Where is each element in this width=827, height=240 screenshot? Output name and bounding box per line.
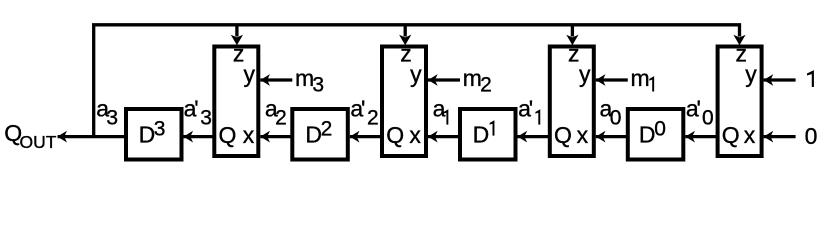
svg-text:x: x	[409, 122, 421, 148]
arrowhead into x of cell 2	[428, 131, 438, 143]
wire: m2 input into y of cell 2	[428, 78, 460, 81]
svg-text:2: 2	[480, 74, 492, 97]
arrowhead into y of cell 3	[596, 74, 606, 86]
wire: cell2 Q output to D2 input (node a'2)	[350, 135, 382, 138]
svg-text:D: D	[473, 121, 490, 147]
svg-text:Q: Q	[722, 122, 740, 148]
arrowhead into y of cell 2	[428, 74, 438, 86]
cell 1 box (z,y,Q,x multiplier cell)	[214, 47, 258, 157]
arrowhead to Q_OUT	[57, 131, 67, 143]
wire: z-input drop for cell 3	[571, 25, 574, 37]
wire: cell1 Q output to D3 input (node a'3)	[183, 135, 214, 138]
svg-text:3: 3	[154, 118, 166, 141]
arrowhead into x of cell 3	[596, 131, 606, 143]
cell 3 box (z,y,Q,x multiplier cell)	[550, 47, 594, 157]
wire: constant 1 into y of cell 4	[764, 78, 796, 81]
svg-text:': '	[529, 96, 533, 122]
input label 1	[807, 70, 814, 87]
svg-text:a: a	[433, 96, 446, 122]
svg-text:x: x	[577, 122, 589, 148]
arrowhead into y of cell 4	[764, 74, 774, 86]
wire: m3 input into y of cell 1	[260, 78, 292, 81]
cell 4 box (z,y,Q,x multiplier cell)	[718, 47, 762, 157]
svg-text:x: x	[744, 122, 756, 148]
arrowhead into D0	[685, 131, 695, 143]
wire: constant 0 into x of cell 4	[764, 135, 796, 138]
arrowhead into x of cell 4	[764, 131, 774, 143]
wire: output of D3 to Q_OUT (node a3)	[58, 135, 127, 138]
svg-text:y: y	[244, 61, 256, 87]
svg-text:0: 0	[702, 107, 714, 130]
svg-text:2: 2	[367, 107, 379, 130]
svg-text:OUT: OUT	[20, 132, 57, 152]
svg-text:D: D	[305, 121, 322, 147]
svg-text:y: y	[745, 61, 757, 87]
delay D1 box	[460, 109, 516, 160]
arrowhead into z of cell 3	[566, 35, 578, 46]
wire: D1 output to cell2 x input (node a1)	[428, 135, 460, 138]
delay D2 box	[292, 109, 348, 160]
svg-text:x: x	[243, 122, 255, 148]
svg-text:': '	[697, 96, 701, 122]
arrowhead into z of cell 2	[399, 35, 411, 46]
svg-text:0: 0	[610, 107, 622, 130]
arrowhead into z of cell 1	[231, 35, 243, 46]
arrowhead into D2	[350, 131, 360, 143]
svg-text:Q: Q	[219, 122, 237, 148]
wire: D2 output to cell1 x input (node a2)	[260, 135, 292, 138]
svg-text:': '	[194, 96, 198, 122]
svg-text:Q: Q	[554, 122, 572, 148]
wire: m1 input into y of cell 3	[596, 78, 628, 81]
wire: z-input drop for cell 1	[235, 25, 238, 37]
svg-text:D: D	[639, 121, 656, 147]
arrowhead into x of cell 1	[260, 131, 270, 143]
delay D3 box	[126, 109, 182, 160]
svg-text:2: 2	[275, 107, 287, 130]
svg-text:D: D	[139, 121, 156, 147]
svg-text:3: 3	[106, 107, 118, 130]
wire: cell3 Q output to D1 input (node a'1)	[518, 135, 550, 138]
svg-text:z: z	[568, 41, 580, 67]
wire: D0 output to cell3 x input (node a0)	[596, 135, 628, 138]
arrowhead into D3	[183, 131, 193, 143]
svg-text:2: 2	[321, 118, 333, 141]
svg-text:3: 3	[312, 74, 324, 97]
svg-text:y: y	[579, 61, 591, 87]
svg-text:0: 0	[654, 118, 666, 141]
svg-text:0: 0	[805, 123, 818, 149]
svg-text:m: m	[631, 65, 650, 91]
svg-text:Q: Q	[386, 122, 404, 148]
svg-text:m: m	[463, 65, 482, 91]
wire: z-input drop for cell 2	[404, 25, 407, 37]
arrowhead into D1	[518, 131, 528, 143]
svg-text:3: 3	[200, 107, 212, 130]
wire: feedback rail from node a3 up and across the top to all z inputs	[94, 25, 740, 136]
cell 2 box (z,y,Q,x multiplier cell)	[382, 47, 426, 157]
wire: cell4 Q output to D0 input (node a'0)	[685, 135, 717, 138]
svg-text:y: y	[410, 61, 422, 87]
svg-text:': '	[361, 96, 365, 122]
arrowhead into z of cell 4	[733, 35, 745, 46]
arrowhead into y of cell 1	[260, 74, 270, 86]
svg-text:m: m	[295, 65, 314, 91]
delay D0 box	[628, 109, 684, 160]
